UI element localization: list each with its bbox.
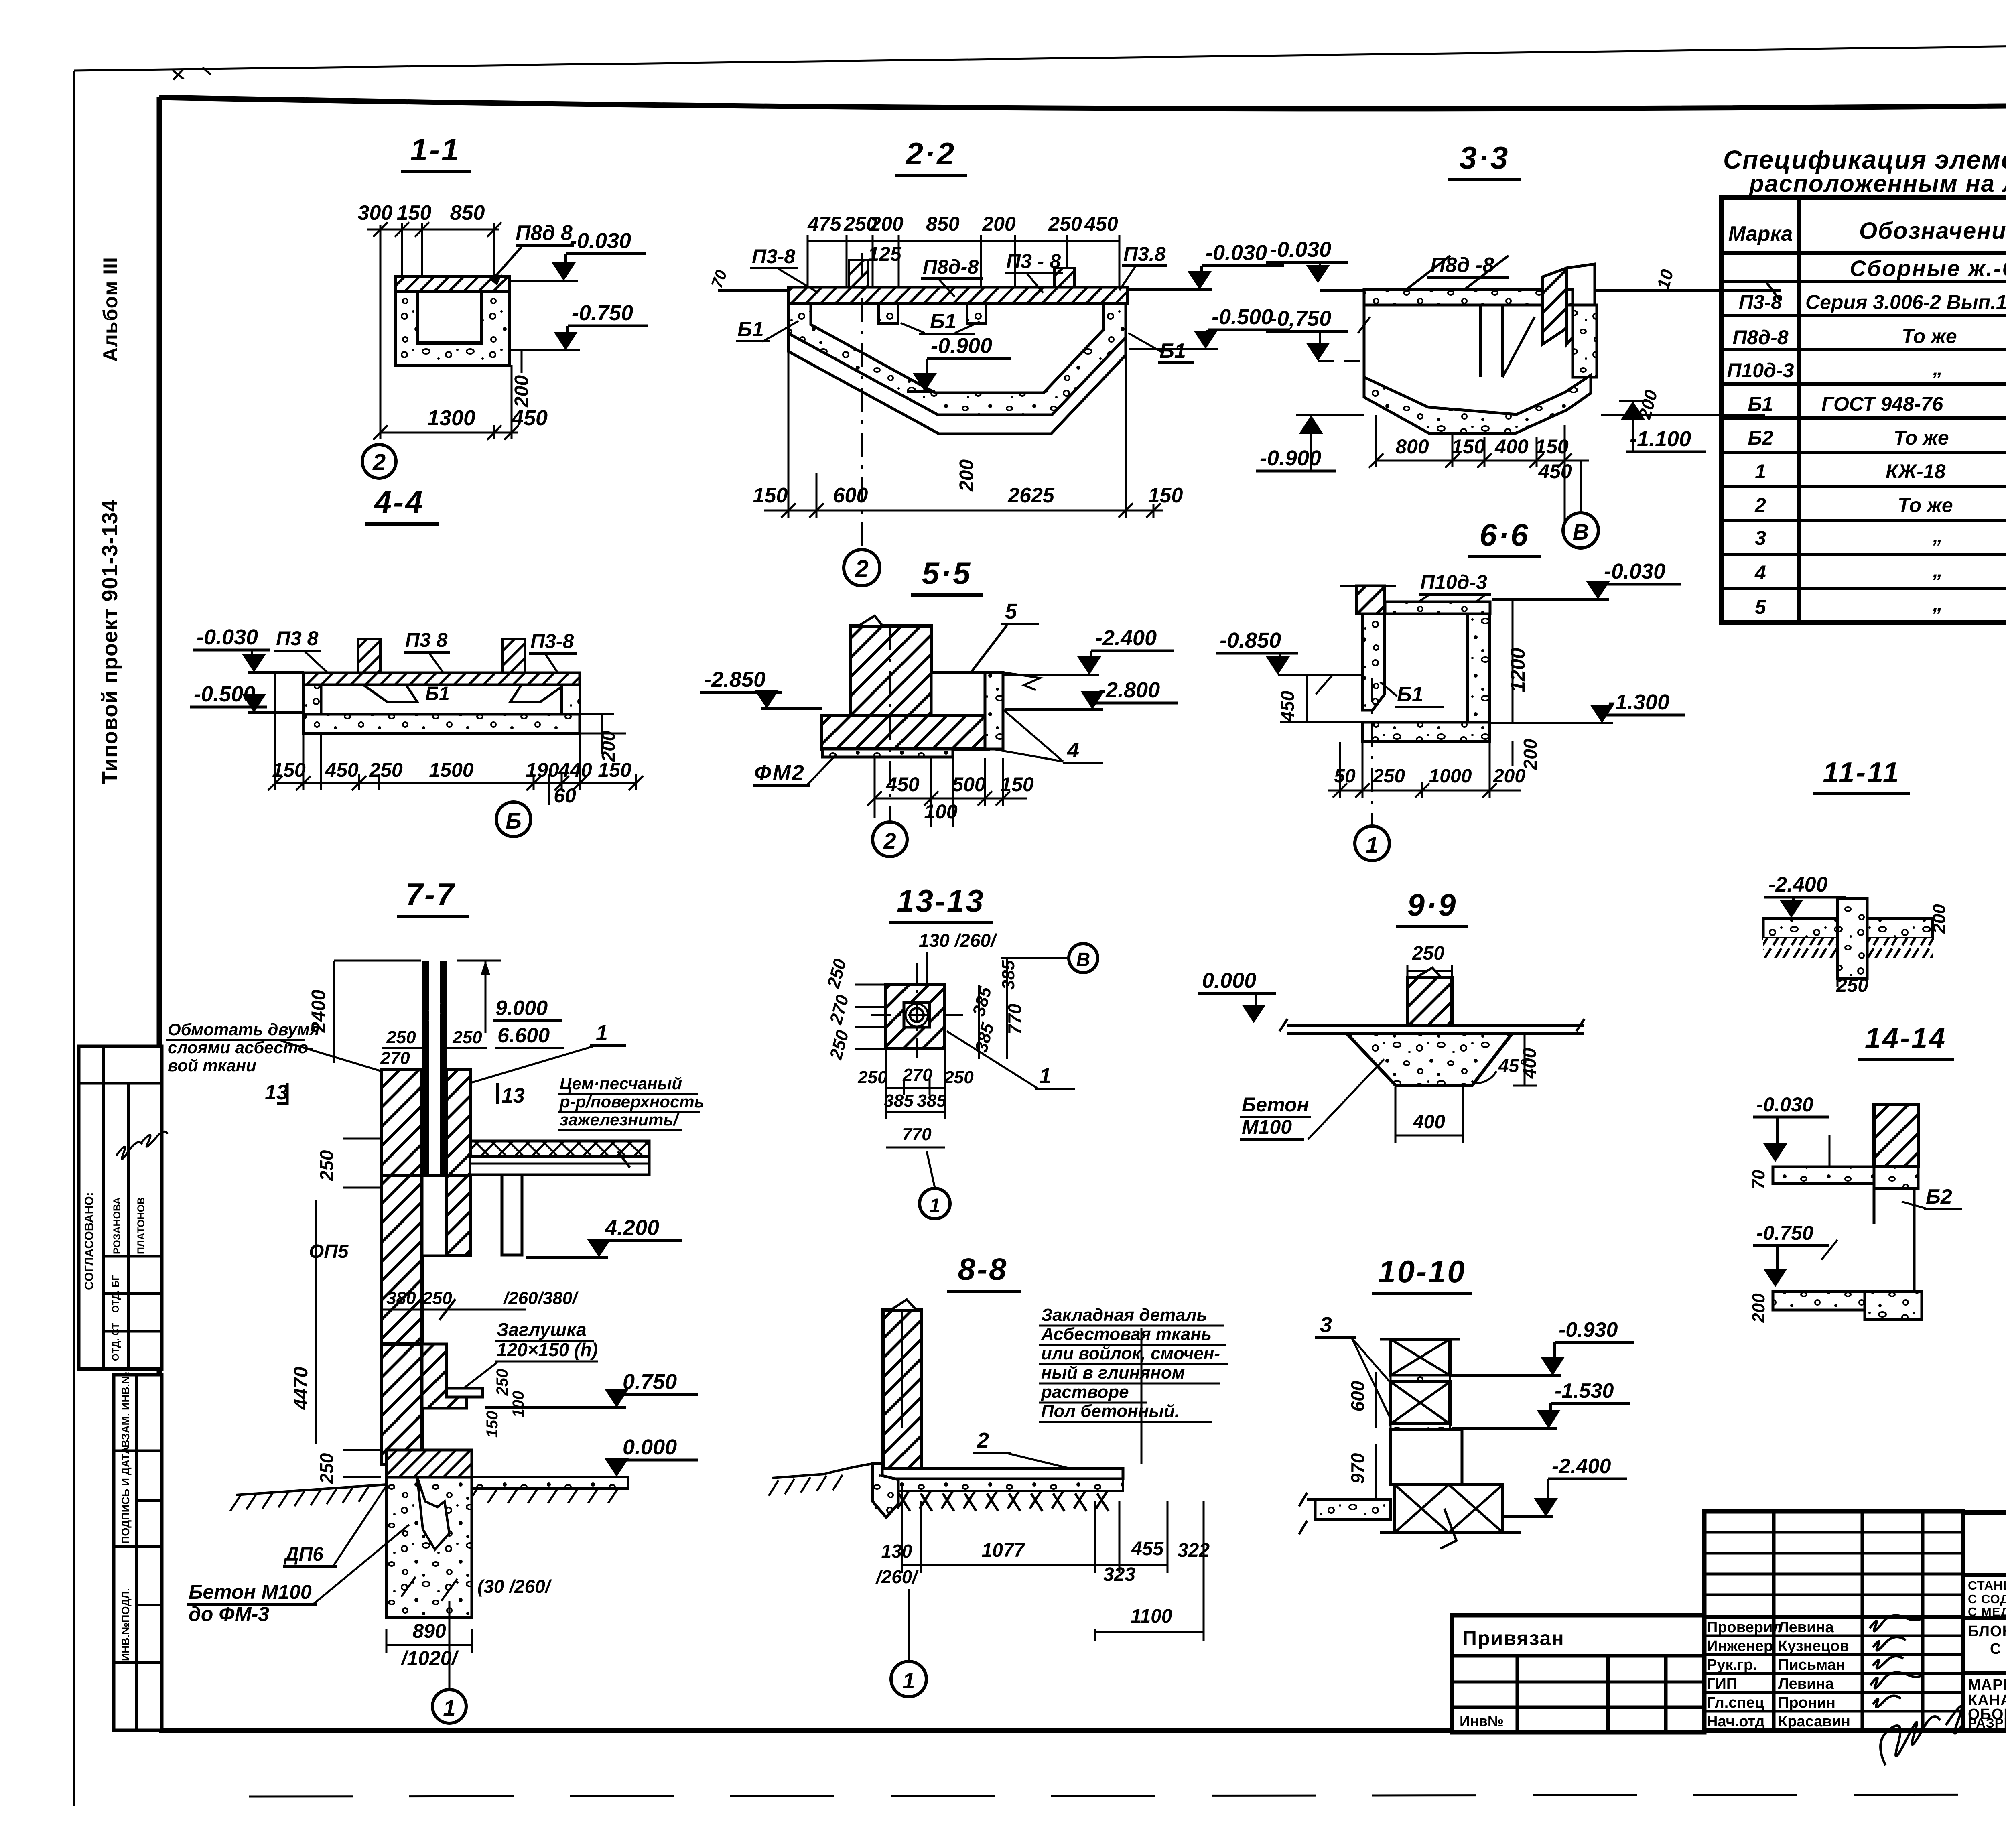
section 5-5 axis circle 2 [889,626,891,822]
section 2-2 [708,136,1290,586]
svg-text:1100: 1100 [1131,1606,1172,1627]
svg-text:-1.100: -1.100 [1630,427,1691,451]
svg-text:250: 250 [316,1453,337,1484]
svg-text:Б1: Б1 [1397,683,1423,706]
section 13-13 hatched column plan [886,985,945,1049]
svg-text:890: 890 [412,1620,446,1642]
svg-text:400: 400 [1494,435,1529,458]
svg-text:расположенным на листе КЖ-8: расположенным на листе КЖ-8 [1748,170,2006,197]
svg-text:100: 100 [510,1391,527,1418]
svg-text:200: 200 [1493,766,1525,787]
section 6-6 dim 1200 [1512,599,1514,723]
svg-text:380: 380 [386,1288,416,1308]
section 2-2 left wall [788,287,1126,434]
svg-text:П3-8: П3-8 [530,630,574,652]
section 2-2 bottom dims [764,335,1163,518]
section 7-7 flue plug [447,1388,483,1397]
svg-text:-0.030: -0.030 [1206,241,1267,265]
svg-text:Цем·песчаный: Цем·песчаный [560,1074,682,1093]
svg-text:П3 - 8: П3 - 8 [1006,250,1061,272]
svg-text:60: 60 [554,784,576,807]
svg-text:455: 455 [1131,1538,1164,1560]
inventory stamp column (ИНВ №, ПОДПИСЬ И ДАТА, ВЗАМ ИНВ №) [114,1372,162,1730]
svg-text:вой ткани: вой ткани [168,1056,256,1075]
section 4-4 bottom slab band [303,714,580,733]
svg-text:ФМ2: ФМ2 [754,761,805,785]
section 7-7 ground line and hatches [236,1484,386,1495]
svg-text:-0.030: -0.030 [1756,1093,1813,1116]
svg-text:ПОДПИСЬ И ДАТА: ПОДПИСЬ И ДАТА [120,1446,132,1544]
svg-text:250: 250 [1836,975,1868,996]
svg-text:Обмотать двумя: Обмотать двумя [168,1020,319,1039]
svg-text:250: 250 [1412,943,1444,964]
section 5-5 footing [822,715,989,749]
svg-text:П3-8: П3-8 [752,245,795,268]
svg-text:Привязан: Привязан [1462,1627,1565,1649]
svg-text:Инженер: Инженер [1707,1638,1773,1655]
svg-text:0.000: 0.000 [623,1435,677,1459]
svg-text:РАЗРЕЗЫ 1-1 ÷ 13-13: РАЗРЕЗЫ 1-1 ÷ 13-13 [1968,1716,2006,1730]
svg-text:200: 200 [982,213,1016,235]
section 13-13 bottom dims [886,1049,945,1147]
section 8-8 axis circle 1 [908,1589,910,1661]
section 7-7 foundation block [386,1477,472,1618]
svg-text:9·9: 9·9 [1407,887,1458,922]
svg-text:1500: 1500 [429,759,473,781]
svg-text:Б2: Б2 [1748,426,1773,449]
svg-text:МАРКИРОВОЧНАЯ СХЕМА: МАРКИРОВОЧНАЯ СХЕМА [1968,1677,2006,1694]
svg-text:8-8: 8-8 [958,1251,1008,1287]
section 14-14 upper floor strip [1773,1167,1874,1184]
svg-text:1: 1 [929,1194,940,1217]
title block: staff signature table [1704,1511,1978,1765]
section 3-3 [1256,140,1781,548]
svg-text:6·6: 6·6 [1480,517,1530,552]
svg-text:Б1: Б1 [930,310,956,333]
svg-text:-0.850: -0.850 [1220,628,1281,652]
svg-text:1300: 1300 [427,406,475,430]
section 13-13 [824,883,1098,1219]
section 7-7 main wall middle [381,1176,422,1344]
title block: main right part [1963,1513,2006,1730]
svg-text:Б2: Б2 [1926,1185,1952,1208]
section 6-6 bottom dims [1328,742,1521,798]
svg-text:1: 1 [443,1695,455,1720]
svg-text:850: 850 [926,213,960,235]
svg-text:-0.900: -0.900 [931,334,992,358]
svg-text:-2.800: -2.800 [1098,678,1160,702]
svg-text:до ФМ-3: до ФМ-3 [189,1603,269,1625]
svg-text:Б1: Б1 [1159,339,1186,363]
svg-text:150: 150 [598,759,631,781]
svg-text:П10д-3: П10д-3 [1420,571,1487,593]
section 2-2 plate post left [849,260,868,287]
section 9-9 dim 400 bottom [1395,1087,1397,1143]
svg-text:Рук.гр.: Рук.гр. [1707,1657,1757,1673]
section 2-2 top dimension row [808,235,1119,305]
svg-text:С НАСОСНОЙ СТАНЦИЕЙ: С НАСОСНОЙ СТАНЦИЕЙ [1990,1639,2006,1657]
svg-text:Инв№: Инв№ [1460,1713,1504,1729]
svg-text:ИНВ.№ПОДЛ.: ИНВ.№ПОДЛ. [120,1588,132,1661]
svg-text:ный в глиняном: ный в глиняном [1041,1363,1185,1383]
section 10-10 [1299,1254,1634,1549]
svg-text:10-10: 10-10 [1378,1254,1466,1289]
svg-text:6.600: 6.600 [497,1024,550,1047]
svg-text:Нач.отд: Нач.отд [1707,1713,1765,1730]
svg-text:или войлок, смочен-: или войлок, смочен- [1041,1344,1220,1363]
svg-text:„: „ [1933,524,1943,547]
svg-text:150: 150 [397,201,432,225]
svg-text:9.000: 9.000 [495,997,548,1020]
svg-text:250: 250 [422,1288,452,1308]
svg-text:-0.500: -0.500 [1212,305,1273,329]
section 4-4 [190,484,643,837]
svg-text:2: 2 [977,1428,989,1452]
svg-text:ВЗАМ. ИНВ.№: ВЗАМ. ИНВ.№ [120,1372,132,1448]
svg-text:200: 200 [511,375,532,408]
svg-text:500: 500 [952,773,986,796]
svg-text:растворе: растворе [1041,1382,1129,1402]
section 3-3 axis circle V [1580,461,1582,514]
svg-text:КЖ-18: КЖ-18 [1886,460,1946,483]
section 3-3 left wall edge [1363,290,1366,377]
specification table header texts [1728,212,2006,281]
section 1-1 channel body [395,277,510,365]
svg-text:ДП6: ДП6 [283,1544,323,1565]
section 3-3 right pier hatched [1543,268,1567,344]
section 8-8 ground hatch under slab [875,1491,1107,1509]
specification table rows [1727,291,2006,622]
svg-text:БЛОК СЛУЖЕБНЫХ ПОМЕЩЕНИЙ: БЛОК СЛУЖЕБНЫХ ПОМЕЩЕНИЙ [1968,1622,2006,1640]
section 3-3 top slab [1364,290,1573,305]
section 1-1 top slab hatched [395,277,510,292]
section 3-3 bottom band [1364,375,1591,433]
svg-text:-0.750: -0.750 [1756,1222,1813,1244]
svg-text:П8д-8: П8д-8 [1732,326,1788,349]
svg-text:П8д 8: П8д 8 [516,221,573,245]
svg-text:П3.8: П3.8 [1123,243,1166,265]
section 14-14 wall verticals [1913,1188,1916,1292]
svg-text:Пронин: Пронин [1778,1694,1835,1711]
svg-text:1000: 1000 [1429,766,1472,787]
svg-text:-1.300: -1.300 [1608,690,1669,714]
svg-text:120×150 (h): 120×150 (h) [497,1339,598,1360]
svg-text:250: 250 [316,1150,337,1181]
svg-text:Проверил: Проверил [1707,1619,1782,1636]
svg-text:-0.930: -0.930 [1559,1318,1618,1342]
svg-text:Левина: Левина [1778,1619,1834,1636]
svg-text:2: 2 [1754,494,1766,516]
section 6-6 top slab [1385,602,1490,614]
svg-text:270: 270 [902,1065,932,1085]
section 10-10 dim 970 [1375,1444,1377,1499]
section 3-3 right wall stippled [1573,305,1597,377]
section 14-14 [1749,1022,1962,1323]
section 10-10 middle plain block [1391,1430,1462,1484]
svg-text:200: 200 [869,213,904,235]
svg-text:850: 850 [450,201,485,225]
section 9-9 column hatched [1407,977,1452,1026]
section 6-6 axis circle 1 [1371,678,1373,827]
section 2-2 lintel block B1 right [967,303,986,323]
section 6-6 [1216,517,1685,861]
svg-text:1: 1 [1039,1064,1051,1088]
svg-text:СОГЛАСОВАНО:: СОГЛАСОВАНО: [83,1192,96,1290]
svg-text:Серия 3.006-2 Вып.11-2: Серия 3.006-2 Вып.11-2 [1805,291,2006,313]
section 10-10 upper crossed box [1391,1339,1450,1375]
section 9-9 floor double line [1287,1024,1584,1027]
svg-text:800: 800 [1395,435,1429,458]
svg-text:200: 200 [1929,904,1949,934]
section 10-10 bottom wide crossed box [1395,1484,1503,1533]
svg-text:Бетон М100: Бетон М100 [189,1581,312,1603]
section 4-4 lintel struts under slab [363,685,417,702]
svg-text:150: 150 [1148,484,1183,507]
svg-text:7-7: 7-7 [406,877,456,912]
svg-text:1: 1 [902,1668,915,1693]
svg-text:4: 4 [1067,738,1079,762]
svg-text:440: 440 [558,759,592,781]
section 8-8 dims [902,1484,1204,1641]
svg-text:Б1: Б1 [1748,393,1773,415]
svg-text:1-1: 1-1 [410,132,461,167]
svg-text:250: 250 [386,1028,416,1047]
specification table heading [1723,145,2006,197]
svg-text:ГОСТ 948-76: ГОСТ 948-76 [1821,393,1943,415]
svg-text:450: 450 [325,759,359,781]
section 11-11 ground hatch [1763,938,1933,958]
section 4-4 walls [303,685,321,714]
section 7-7 chimney wall upper [381,1069,422,1176]
svg-text:770: 770 [1004,1003,1025,1034]
svg-text:Заглушка: Заглушка [497,1319,587,1340]
svg-text:То же: То же [1902,325,1957,347]
svg-text:600: 600 [1347,1381,1368,1411]
svg-text:-2.850: -2.850 [704,668,765,692]
section 10-10 gasket strip [1391,1375,1450,1382]
section 9-9 dim 400 right [1524,1034,1526,1086]
section 5-5 right step [931,672,985,715]
section 2-2 top slab [788,287,1127,303]
svg-text:1200: 1200 [1507,648,1529,692]
svg-text:1: 1 [1366,832,1378,857]
svg-text:(30 /260/: (30 /260/ [477,1576,552,1597]
signatures squiggles [1870,1616,1978,1765]
svg-text:П3 8: П3 8 [405,629,448,651]
svg-text:„: „ [1933,559,1943,581]
svg-text:323: 323 [1103,1564,1135,1585]
svg-text:В: В [1076,949,1090,971]
svg-text:970: 970 [1347,1453,1368,1484]
section 2-2 lintel block B1 left [879,303,898,323]
svg-text:Марка: Марка [1728,222,1793,246]
section 4-4 dim 200 right [580,713,614,715]
svg-text:150: 150 [483,1411,501,1438]
section 1-1 bottom dims 1300 450 [373,365,519,440]
section 8-8 [769,1251,1228,1697]
section 10-10 middle crossed box [1391,1382,1450,1424]
svg-text:125: 125 [868,243,902,265]
svg-text:РОЗАНОВА: РОЗАНОВА [112,1197,123,1254]
svg-text:322: 322 [1178,1540,1210,1561]
svg-text:Обозначение: Обозначение [1859,218,2006,244]
svg-text:450: 450 [1277,690,1298,722]
svg-text:Левина: Левина [1778,1675,1834,1692]
svg-text:ГИП: ГИП [1707,1675,1737,1692]
section 7-7 dim 2400 [333,961,335,1063]
svg-text:„: „ [1933,357,1943,380]
svg-text:Б1: Б1 [737,318,764,341]
svg-text:150: 150 [753,484,788,507]
svg-text:3·3: 3·3 [1460,140,1510,175]
section 2-2 plate post right [1054,268,1074,287]
svg-text:100: 100 [924,800,958,823]
svg-text:В: В [1573,519,1589,544]
svg-text:-0.030: -0.030 [570,229,631,253]
svg-text:СТАНЦИЯ ОЧИСТКИ ВОДЫ ПОВЕРХНОС: СТАНЦИЯ ОЧИСТКИ ВОДЫ ПОВЕРХНОСТНЫХ ИСТОЧ… [1968,1578,2006,1592]
svg-text:1: 1 [596,1021,608,1045]
svg-text:ПЛАТОНОВ: ПЛАТОНОВ [136,1197,147,1254]
svg-text:450: 450 [1538,460,1572,483]
svg-text:0.750: 0.750 [623,1370,677,1394]
svg-text:450: 450 [1084,213,1118,235]
section 8-8 floor slab [878,1468,1123,1479]
svg-text:Б1: Б1 [425,683,450,705]
section 8-8 notes right [1041,1305,1220,1421]
section 11-11 [1763,757,1949,996]
section 6-6 right wall [1468,614,1490,734]
svg-text:ОТД. СТ: ОТД. СТ [110,1323,121,1361]
svg-text:ОП5: ОП5 [309,1241,349,1262]
svg-text:Письман: Письман [1778,1657,1845,1673]
svg-text:-2.400: -2.400 [1095,626,1157,650]
svg-text:5: 5 [1755,596,1766,618]
svg-text:250: 250 [857,1068,887,1087]
section 7-7 dim 4470 [315,1200,317,1444]
section 10-10 gasket strip 2 [1391,1424,1450,1430]
svg-text:130 /260/: 130 /260/ [919,930,997,951]
section 8-8 wall hatched [883,1310,921,1475]
svg-text:М100: М100 [1242,1116,1292,1138]
svg-text:150: 150 [1000,773,1034,796]
svg-text:1077: 1077 [982,1540,1025,1561]
svg-text:П8д-8: П8д-8 [923,256,979,278]
section 4-4 top slab hatched [303,673,580,685]
svg-text:Гл.спец: Гл.спец [1707,1694,1764,1711]
svg-text:250: 250 [452,1028,482,1047]
section 5-5 wall hatched [850,626,931,715]
section 9-9 footing trapezoid [1347,1034,1512,1086]
svg-text:-0.030: -0.030 [1270,238,1331,262]
svg-text:То же: То же [1898,494,1953,516]
svg-text:-0.750: -0.750 [572,301,633,325]
svg-text:Красавин: Красавин [1778,1713,1850,1730]
section 4-4 posts on slab [358,639,380,673]
svg-text:Бетон: Бетон [1242,1093,1309,1116]
section 6-6 bottom slab [1362,722,1490,741]
svg-text:13: 13 [501,1084,525,1107]
specification table grid [1722,197,2006,623]
svg-text:14-14: 14-14 [1865,1022,1947,1054]
section 7-7 dims 9000 6600 [457,960,501,962]
svg-text:-0,750: -0,750 [1270,307,1331,331]
svg-text:250: 250 [369,759,403,781]
svg-text:4: 4 [1754,561,1766,584]
section 13-13 axis circle 1 [927,1151,935,1188]
svg-text:То же: То же [1894,426,1949,449]
section 13-13 axis circle V [1001,957,1067,959]
section 10-10 left floor strip [1315,1499,1391,1519]
svg-text:4.200: 4.200 [605,1216,659,1240]
svg-text:Асбестовая ткань: Асбестовая ткань [1041,1324,1212,1344]
svg-text:13: 13 [265,1081,288,1104]
svg-text:/260/380/: /260/380/ [503,1288,579,1308]
svg-text:150: 150 [272,759,306,781]
approval stamp table (СОГЛАСОВАНО) [79,1046,168,1369]
section 14-14 upper hatched block [1874,1104,1918,1167]
svg-text:2: 2 [372,449,386,475]
svg-text:475: 475 [807,213,842,235]
svg-text:-2.400: -2.400 [1552,1455,1611,1478]
svg-text:50: 50 [1334,766,1356,787]
svg-text:/260/: /260/ [875,1566,919,1587]
section 10-10 dim 600 [1375,1372,1377,1428]
section 7-7 top pipe [422,961,447,1176]
section 4-4 bottom dim line [268,674,643,805]
svg-text:/1020/: /1020/ [400,1647,459,1669]
section 4-4 axis circle Б [496,802,531,837]
svg-text:2625: 2625 [1007,484,1055,507]
svg-text:70: 70 [1749,1170,1768,1189]
section 1-1 axis circle 2 [362,445,396,478]
svg-text:11-11: 11-11 [1823,757,1900,789]
section 7-7 axis circle 1 [449,1601,451,1689]
svg-text:3: 3 [1755,527,1766,549]
section 5-5 bottom dims [867,758,1027,827]
svg-text:Кузнецов: Кузнецов [1778,1638,1849,1655]
svg-text:400: 400 [1519,1048,1540,1079]
section 3-3 right side lines [1595,289,1781,292]
svg-text:2: 2 [883,828,896,853]
section 7-7 base hatched strip [386,1450,472,1477]
svg-text:385: 385 [884,1091,914,1111]
svg-text:300: 300 [358,201,393,225]
svg-text:270: 270 [380,1048,410,1068]
svg-text:0.000: 0.000 [1202,969,1256,993]
svg-text:450: 450 [511,406,548,430]
svg-text:-1.530: -1.530 [1555,1379,1614,1403]
section 7-7 wall below slab stub [502,1175,522,1255]
section 2-2 axis circle 2 [861,253,863,550]
svg-text:1: 1 [1755,460,1766,483]
svg-text:250: 250 [1048,213,1082,235]
svg-text:Типовой проект 901-3-134: Типовой проект 901-3-134 [98,499,122,784]
svg-text:„: „ [1933,593,1943,615]
svg-text:2·2: 2·2 [905,136,956,171]
section 7-7 floor slab right [471,1141,649,1156]
section 9-9 [1198,887,1584,1143]
svg-text:С СОДЕРЖАНИЕМ ВЗВЕШЕННЫХ ВЕЩЕС: С СОДЕРЖАНИЕМ ВЗВЕШЕННЫХ ВЕЩЕСТВ ДО 700 … [1968,1592,2006,1606]
section 7-7 wall lower with flue [381,1344,422,1464]
svg-text:200: 200 [956,459,977,492]
svg-text:385: 385 [999,960,1018,990]
section 11-11 floor strip [1763,918,1933,938]
svg-text:130: 130 [881,1541,912,1562]
svg-text:П10д-3: П10д-3 [1727,359,1794,382]
svg-text:150: 150 [1535,435,1569,458]
svg-text:ОТД. БГ: ОТД. БГ [110,1275,121,1313]
svg-text:Сборные ж.-б. элементы: Сборные ж.-б. элементы [1850,256,2006,281]
